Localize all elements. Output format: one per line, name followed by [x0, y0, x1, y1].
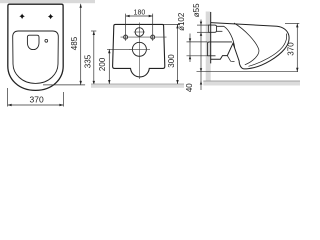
svg-text:180: 180	[134, 10, 146, 17]
svg-text:40: 40	[185, 83, 194, 92]
svg-text:ø102: ø102	[177, 12, 186, 31]
svg-text:370: 370	[30, 94, 44, 104]
svg-text:200: 200	[98, 57, 107, 71]
svg-text:485: 485	[70, 36, 79, 50]
svg-text:370: 370	[287, 42, 296, 56]
svg-text:300: 300	[167, 54, 176, 68]
svg-text:335: 335	[83, 54, 92, 68]
svg-text:ø55: ø55	[192, 3, 201, 17]
